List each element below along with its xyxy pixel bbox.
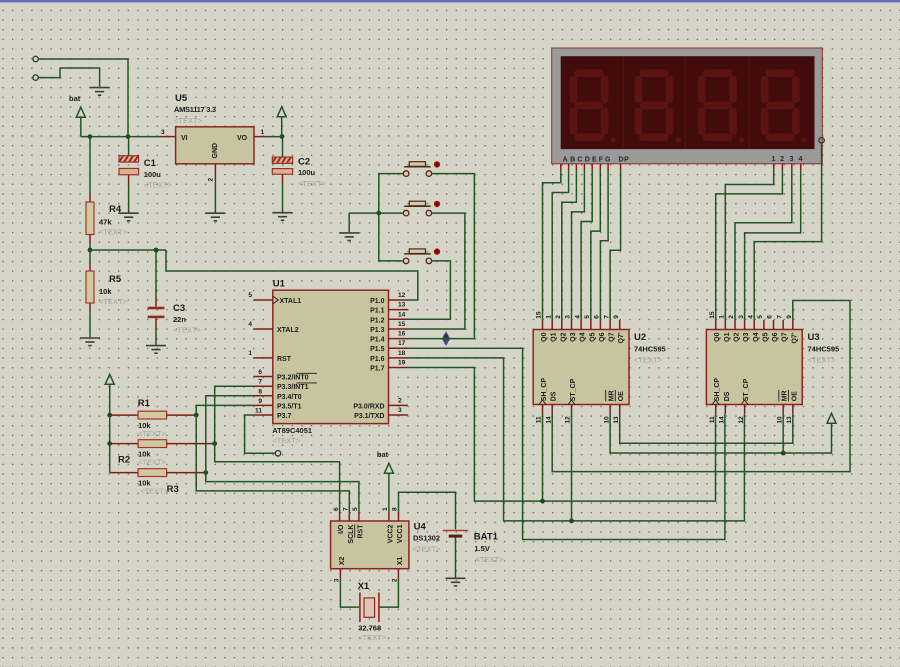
wire SW2 left to bus [379, 212, 403, 214]
U3 bottom pin stubs [716, 405, 793, 415]
pin 5 U1.XTAL1 [248, 292, 272, 300]
wire display DP to U2.Q7 [610, 171, 621, 320]
svg-text:C3: C3 [173, 303, 185, 314]
svg-text:R4: R4 [109, 204, 122, 215]
svg-text:P3.3/INT1: P3.3/INT1 [277, 384, 309, 391]
svg-text:U5: U5 [175, 93, 188, 104]
power flag bat (top-left) [69, 94, 85, 137]
ground (terminals) [90, 88, 110, 96]
svg-text:<TEXT>: <TEXT> [173, 326, 202, 335]
svg-text:<TEXT>: <TEXT> [634, 356, 663, 365]
svg-text:R5: R5 [109, 274, 122, 285]
svg-text:R2: R2 [118, 455, 130, 466]
power arrow (3.3V output) [277, 107, 286, 137]
resistor R1 10k [110, 398, 197, 438]
capacitor C3 22n [148, 250, 202, 345]
svg-text:Q3: Q3 [743, 332, 750, 341]
svg-text:P1.6: P1.6 [370, 356, 385, 363]
svg-text:10: 10 [603, 416, 610, 424]
svg-text:5: 5 [757, 315, 764, 319]
top blue border line [0, 0, 900, 2]
svg-text:GND: GND [212, 143, 219, 159]
svg-text:F: F [599, 157, 604, 164]
U2 top pin numbers [536, 311, 620, 319]
push button SW3 [403, 248, 440, 263]
svg-text:P1.5: P1.5 [370, 346, 385, 353]
wire display digit1 to U3.Q1 [725, 171, 773, 320]
svg-text:bat: bat [69, 94, 81, 103]
svg-text:P1.4: P1.4 [370, 337, 385, 344]
svg-text:<TEXT>: <TEXT> [298, 179, 327, 188]
node junction C3 tap [154, 248, 159, 253]
svg-text:DS: DS [724, 391, 731, 401]
svg-text:14: 14 [719, 416, 726, 424]
svg-text:1: 1 [719, 315, 726, 319]
svg-text:1: 1 [382, 507, 389, 511]
svg-text:C: C [577, 157, 583, 164]
svg-text:8: 8 [392, 507, 399, 511]
node junction ST_CP [569, 519, 574, 524]
svg-text:11: 11 [709, 416, 716, 423]
node junction R4/R5/C3 [88, 248, 93, 253]
svg-text:6: 6 [333, 507, 340, 511]
pin 12 U1.P1.0 [389, 292, 408, 300]
NC node circle [275, 451, 280, 456]
wire U2.DS to U3.Q7' [552, 301, 850, 472]
svg-text:<TEXT>: <TEXT> [99, 228, 128, 237]
power arrow (MR) [827, 413, 836, 423]
wire terminal J1 to VI rail [38, 59, 128, 137]
wire bus to ground [349, 213, 379, 232]
svg-text:11: 11 [255, 408, 262, 415]
wire divider node to U1.P1.0 [166, 250, 418, 300]
svg-text:Q2: Q2 [560, 332, 567, 341]
wire resistor bus [109, 415, 111, 473]
pin 4 U1.XTAL2 [248, 321, 272, 329]
svg-text:DP: DP [619, 157, 630, 164]
pin 17 U1.P1.5 [389, 340, 408, 348]
node junction VI rail / terminal wire [126, 134, 131, 139]
svg-text:5: 5 [352, 507, 359, 511]
svg-text:P3.1/TXD: P3.1/TXD [354, 413, 384, 420]
svg-text:<TEXT>: <TEXT> [358, 633, 387, 642]
svg-text:7: 7 [776, 315, 783, 319]
U2 top pin stubs Q0-Q7' [543, 320, 620, 330]
svg-text:C1: C1 [144, 158, 157, 169]
svg-text:OE: OE [618, 391, 625, 401]
wire P1.6 to ST_CP rail [408, 358, 745, 521]
resistor R3 10k [110, 469, 206, 496]
U2 bottom pin numbers [536, 416, 620, 424]
wire MR rail to power arrow [610, 414, 831, 453]
svg-text:Q5: Q5 [762, 332, 769, 341]
svg-text:47k: 47k [99, 218, 112, 227]
display digit 3 segments [702, 73, 733, 137]
svg-text:I/O: I/O [338, 524, 345, 534]
capacitor C1 100u [117, 137, 172, 213]
svg-text:<TEXT>: <TEXT> [808, 356, 837, 365]
display side terminal circle [819, 138, 824, 143]
svg-text:74HC595: 74HC595 [808, 345, 840, 354]
svg-text:X1: X1 [358, 581, 370, 592]
svg-text:4: 4 [798, 156, 803, 163]
svg-text:3: 3 [334, 578, 341, 582]
svg-text:VCC1: VCC1 [397, 524, 404, 543]
svg-text:R1: R1 [138, 398, 151, 409]
svg-text:5: 5 [248, 292, 252, 299]
svg-text:100u: 100u [298, 168, 316, 177]
svg-text:ST_CP: ST_CP [570, 378, 577, 401]
power flag bat (U4 VCC2) [377, 450, 394, 511]
svg-text:22n: 22n [173, 315, 186, 324]
input terminal J2 [33, 75, 38, 80]
svg-text:2: 2 [555, 315, 562, 319]
svg-text:4: 4 [747, 315, 754, 319]
ground (C2) [273, 213, 293, 221]
svg-text:1: 1 [771, 156, 776, 163]
svg-text:9: 9 [613, 315, 620, 319]
wire display digit2 to U3.Q0 [716, 171, 783, 320]
resistor R2 10k [110, 440, 215, 467]
wire battery to ground [455, 538, 457, 578]
wire terminal J2 to ground [38, 68, 99, 87]
svg-text:2: 2 [208, 178, 215, 182]
pin 3 U5.VI [160, 129, 176, 137]
U3 top pin stubs [716, 320, 793, 330]
pin 1 U5.VO [254, 129, 265, 137]
pin 11 U1.P3.7 [254, 408, 273, 416]
svg-text:7: 7 [343, 507, 350, 511]
svg-text:7: 7 [258, 379, 262, 386]
svg-text:Q7: Q7 [609, 332, 616, 341]
svg-text:U2: U2 [634, 332, 646, 343]
wire P3.4 / R3 to U4.RST [206, 396, 359, 512]
svg-text:6: 6 [594, 315, 601, 319]
wire P3.7 to NC node [245, 415, 276, 453]
svg-text:3: 3 [398, 407, 402, 414]
svg-text:6: 6 [767, 315, 774, 319]
pin 6 U1.P3.2 [254, 369, 273, 377]
svg-text:2: 2 [392, 578, 399, 582]
svg-text:18: 18 [398, 350, 406, 357]
node junction VI rail / R4 [88, 134, 93, 139]
svg-text:VI: VI [181, 135, 188, 142]
svg-text:12: 12 [398, 292, 406, 299]
svg-text:U4: U4 [414, 522, 427, 533]
U4 top pin stubs [340, 511, 399, 521]
svg-text:10k: 10k [99, 287, 112, 296]
pin 7 U1.P3.3 [254, 379, 273, 387]
svg-text:P3.2/INT0: P3.2/INT0 [277, 375, 309, 382]
svg-text:17: 17 [398, 340, 406, 347]
wire P1.5 to U3.DS [408, 348, 725, 539]
resistor R5 10k [86, 250, 128, 337]
svg-text:AMS1117 3.3: AMS1117 3.3 [174, 105, 216, 114]
svg-text:100u: 100u [144, 170, 162, 179]
svg-text:P1.0: P1.0 [370, 298, 385, 305]
pin 15 U1.P1.3 [389, 321, 408, 329]
pin 13 U1.P1.1 [389, 302, 408, 310]
svg-text:7: 7 [603, 315, 610, 319]
node junction R2/P3.3 [212, 441, 217, 446]
wire U2.SH_CP drop [542, 414, 544, 501]
svg-text:P3.0/RXD: P3.0/RXD [353, 403, 384, 410]
svg-text:XTAL1: XTAL1 [280, 298, 302, 305]
svg-text:10: 10 [776, 416, 783, 424]
push button SW1 [403, 161, 440, 176]
pin 1 U1.RST [248, 350, 272, 358]
svg-text:6: 6 [258, 369, 262, 376]
svg-text:13: 13 [786, 416, 793, 424]
svg-text:11: 11 [536, 416, 543, 423]
wire display side terminal to U3.Q4 [754, 143, 821, 320]
svg-text:bat: bat [377, 450, 389, 459]
svg-text:AT89C4051: AT89C4051 [272, 426, 312, 435]
input terminal J1 [33, 56, 38, 61]
regulator U5 AMS1117-3.3 [174, 93, 254, 164]
wire display digit4 to U3.Q3 [745, 171, 801, 320]
svg-text:16: 16 [398, 331, 406, 338]
U3 bottom pin numbers [709, 416, 793, 424]
svg-text:Q4: Q4 [753, 332, 760, 341]
svg-text:P1.1: P1.1 [370, 308, 385, 315]
svg-text:VCC2: VCC2 [387, 524, 394, 543]
svg-text:P3.4/T0: P3.4/T0 [277, 394, 302, 401]
svg-text:2: 2 [780, 156, 785, 163]
svg-text:Q5: Q5 [589, 332, 596, 341]
svg-text:Q6: Q6 [599, 332, 606, 341]
wire P3.3 / R2 to U4.IO [215, 386, 340, 511]
svg-text:15: 15 [536, 311, 543, 319]
origin marker (blue) [441, 331, 451, 346]
svg-text:12: 12 [565, 416, 572, 424]
svg-text:OE: OE [791, 391, 798, 401]
svg-text:Q1: Q1 [724, 332, 731, 341]
svg-text:Q7: Q7 [782, 332, 789, 341]
display bottom pin stubs [561, 164, 801, 171]
pin 2 U1.P3.0 [389, 397, 408, 405]
svg-text:P3.5/T1: P3.5/T1 [277, 403, 302, 410]
svg-text:1.5V: 1.5V [474, 544, 489, 553]
svg-text:R3: R3 [167, 484, 179, 495]
svg-text:Q3: Q3 [570, 332, 577, 341]
wire button ground bus [379, 174, 403, 261]
wire display segment G to U2.Q6 [600, 171, 608, 320]
MCU U1 AT89C4051 [272, 279, 388, 446]
capacitor C2 100u [270, 137, 327, 212]
svg-text:13: 13 [613, 416, 620, 424]
svg-text:P1.3: P1.3 [370, 327, 385, 334]
svg-text:P1.2: P1.2 [370, 317, 385, 324]
display digit 4 segments [765, 73, 796, 137]
push button SW2 [403, 201, 440, 216]
svg-text:X2: X2 [339, 557, 346, 566]
node junction button bus [376, 211, 381, 216]
svg-text:<TEXT>: <TEXT> [138, 458, 167, 467]
pin 9 U1.P3.5 [254, 398, 273, 406]
svg-text:8: 8 [258, 388, 262, 395]
svg-text:Q2: Q2 [734, 332, 741, 341]
svg-text:13: 13 [398, 302, 406, 309]
svg-text:3: 3 [738, 315, 745, 319]
node junction R3/P3.4 [203, 470, 208, 475]
display digit 1 segments [573, 73, 604, 137]
svg-text:Q6: Q6 [772, 332, 779, 341]
U4 bottom pin stubs [340, 569, 398, 579]
svg-text:P3.7: P3.7 [277, 413, 292, 420]
svg-text:3: 3 [790, 156, 795, 163]
svg-text:9: 9 [258, 398, 262, 405]
U4 bottom pin numbers [334, 578, 399, 582]
svg-text:SH_CP: SH_CP [541, 378, 548, 402]
svg-text:4: 4 [248, 321, 252, 328]
svg-text:DS: DS [551, 391, 558, 401]
wire U4.VCC1 to battery [399, 492, 456, 529]
wire display segment D to U2.Q3 [572, 171, 585, 320]
pin 3 U1.P3.1 [389, 407, 408, 415]
pin 2 U5.GND [208, 164, 216, 182]
svg-text:RST: RST [277, 356, 292, 363]
battery BAT1 1.5V [443, 531, 504, 565]
ground (R5) [80, 338, 100, 346]
wire SW1 right to P1.4 [408, 174, 475, 339]
wire display segment A to U2.Q0 [543, 171, 561, 320]
svg-text:<TEXT>: <TEXT> [144, 181, 173, 190]
power arrow (R1 bus) [105, 374, 114, 415]
wire display segment E to U2.Q4 [581, 171, 592, 320]
svg-text:ST_CP: ST_CP [743, 378, 750, 401]
svg-text:MR: MR [609, 390, 616, 401]
svg-text:5: 5 [584, 315, 591, 319]
svg-text:<TEXT>: <TEXT> [413, 545, 442, 554]
pin 14 U1.P1.2 [389, 311, 408, 319]
display pin letter labels [563, 156, 803, 164]
svg-text:BAT1: BAT1 [474, 532, 499, 543]
pin 16 U1.P1.4 [389, 331, 408, 339]
shift register U3 74HC595 [706, 330, 839, 405]
svg-text:3: 3 [565, 315, 572, 319]
node junction VO / C2 / power arrow [280, 134, 285, 139]
svg-text:U3: U3 [808, 332, 820, 343]
svg-text:1: 1 [248, 350, 252, 357]
svg-text:2: 2 [728, 315, 735, 319]
svg-text:<TEXT>: <TEXT> [476, 555, 505, 564]
svg-text:C2: C2 [298, 157, 310, 168]
svg-text:14: 14 [398, 311, 406, 318]
ground (BAT1) [446, 578, 466, 586]
svg-text:4: 4 [574, 315, 581, 319]
svg-text:Q7': Q7' [618, 332, 625, 343]
svg-text:MR: MR [782, 390, 789, 401]
svg-text:<TEXT>: <TEXT> [272, 436, 301, 445]
ground (U5) [205, 213, 225, 221]
RTC U4 DS1302 [331, 521, 441, 569]
wire P3.5 / R1 to U4.SCLK [196, 405, 349, 511]
wire SW2 right to P1.3 [408, 213, 465, 329]
U3 top pin numbers [709, 311, 793, 319]
svg-text:Q7': Q7' [791, 332, 798, 343]
pin 8 U1.P3.4 [254, 388, 273, 396]
wire U5.VO to C2 node [265, 136, 282, 138]
svg-text:A: A [563, 157, 569, 164]
U4 top pin numbers [333, 507, 399, 511]
svg-text:Q1: Q1 [551, 332, 558, 341]
wire U5.GND to ground [214, 179, 216, 213]
node junction U3.MR [781, 451, 786, 456]
svg-text:U1: U1 [273, 279, 286, 290]
svg-text:<TEXT>: <TEXT> [174, 116, 203, 125]
wire OE rail U2 to U3 [620, 414, 793, 443]
svg-text:SH_CP: SH_CP [714, 378, 721, 402]
svg-text:15: 15 [398, 321, 406, 328]
svg-text:VO: VO [237, 135, 248, 142]
svg-text:<TEXT>: <TEXT> [99, 297, 128, 306]
svg-text:G: G [605, 157, 611, 164]
svg-text:32.768: 32.768 [358, 624, 381, 633]
wire SW3 right to P1.2 [408, 261, 451, 319]
svg-text:14: 14 [545, 416, 552, 424]
svg-text:1: 1 [261, 129, 265, 136]
svg-text:X1: X1 [397, 557, 404, 566]
ground (C1) [119, 213, 139, 221]
svg-text:RST: RST [357, 524, 364, 539]
wire P1.7 to SH_CP rail [408, 368, 716, 502]
node junction bus/R2 [107, 441, 112, 446]
svg-text:3: 3 [161, 129, 165, 136]
svg-text:<TEXT>: <TEXT> [140, 487, 169, 496]
svg-text:SCLK: SCLK [348, 525, 355, 544]
svg-text:1: 1 [545, 315, 552, 319]
pin 19 U1.P1.7 [389, 360, 408, 368]
svg-text:12: 12 [738, 416, 745, 424]
svg-text:P1.7: P1.7 [370, 366, 385, 373]
pin 18 U1.P1.6 [389, 350, 408, 358]
ground (C3) [146, 346, 166, 354]
crystal X1 32.768 [358, 581, 387, 642]
wire display digit3 to U3.Q2 [735, 171, 792, 320]
7-segment display module (4 digit) [552, 48, 823, 164]
svg-text:19: 19 [398, 360, 406, 367]
svg-text:Q0: Q0 [541, 332, 548, 341]
wire display segment C to U2.Q2 [562, 171, 577, 320]
wire U2.ST_CP drop [571, 414, 573, 521]
svg-text:Q4: Q4 [580, 332, 587, 341]
svg-text:2: 2 [398, 397, 402, 404]
node junction R1/P3.5 [194, 413, 199, 418]
svg-text:D: D [585, 157, 591, 164]
node junction bus/R1 [107, 413, 112, 418]
U2 bottom pin stubs [543, 405, 620, 415]
wire U4.X2 to crystal [340, 578, 359, 607]
svg-text:74HC595: 74HC595 [634, 345, 666, 354]
svg-text:E: E [592, 157, 597, 164]
svg-text:DS1302: DS1302 [413, 534, 440, 543]
shift register U2 74HC595 [533, 330, 666, 405]
display digit 2 segments [638, 73, 669, 137]
svg-text:XTAL2: XTAL2 [277, 327, 299, 334]
wire divider node to C3 [90, 249, 166, 251]
svg-text:B: B [570, 157, 576, 164]
node junction SH_CP [540, 499, 545, 504]
resistor R4 47k [86, 137, 128, 250]
wire display segment F to U2.Q5 [591, 171, 601, 320]
wire display segment B to U2.Q1 [552, 171, 568, 320]
svg-text:<TEXT>: <TEXT> [138, 429, 167, 438]
svg-text:Q0: Q0 [714, 332, 721, 341]
wire U3.MR drop [782, 414, 784, 453]
ground (buttons) [339, 233, 359, 241]
svg-text:15: 15 [709, 311, 716, 319]
